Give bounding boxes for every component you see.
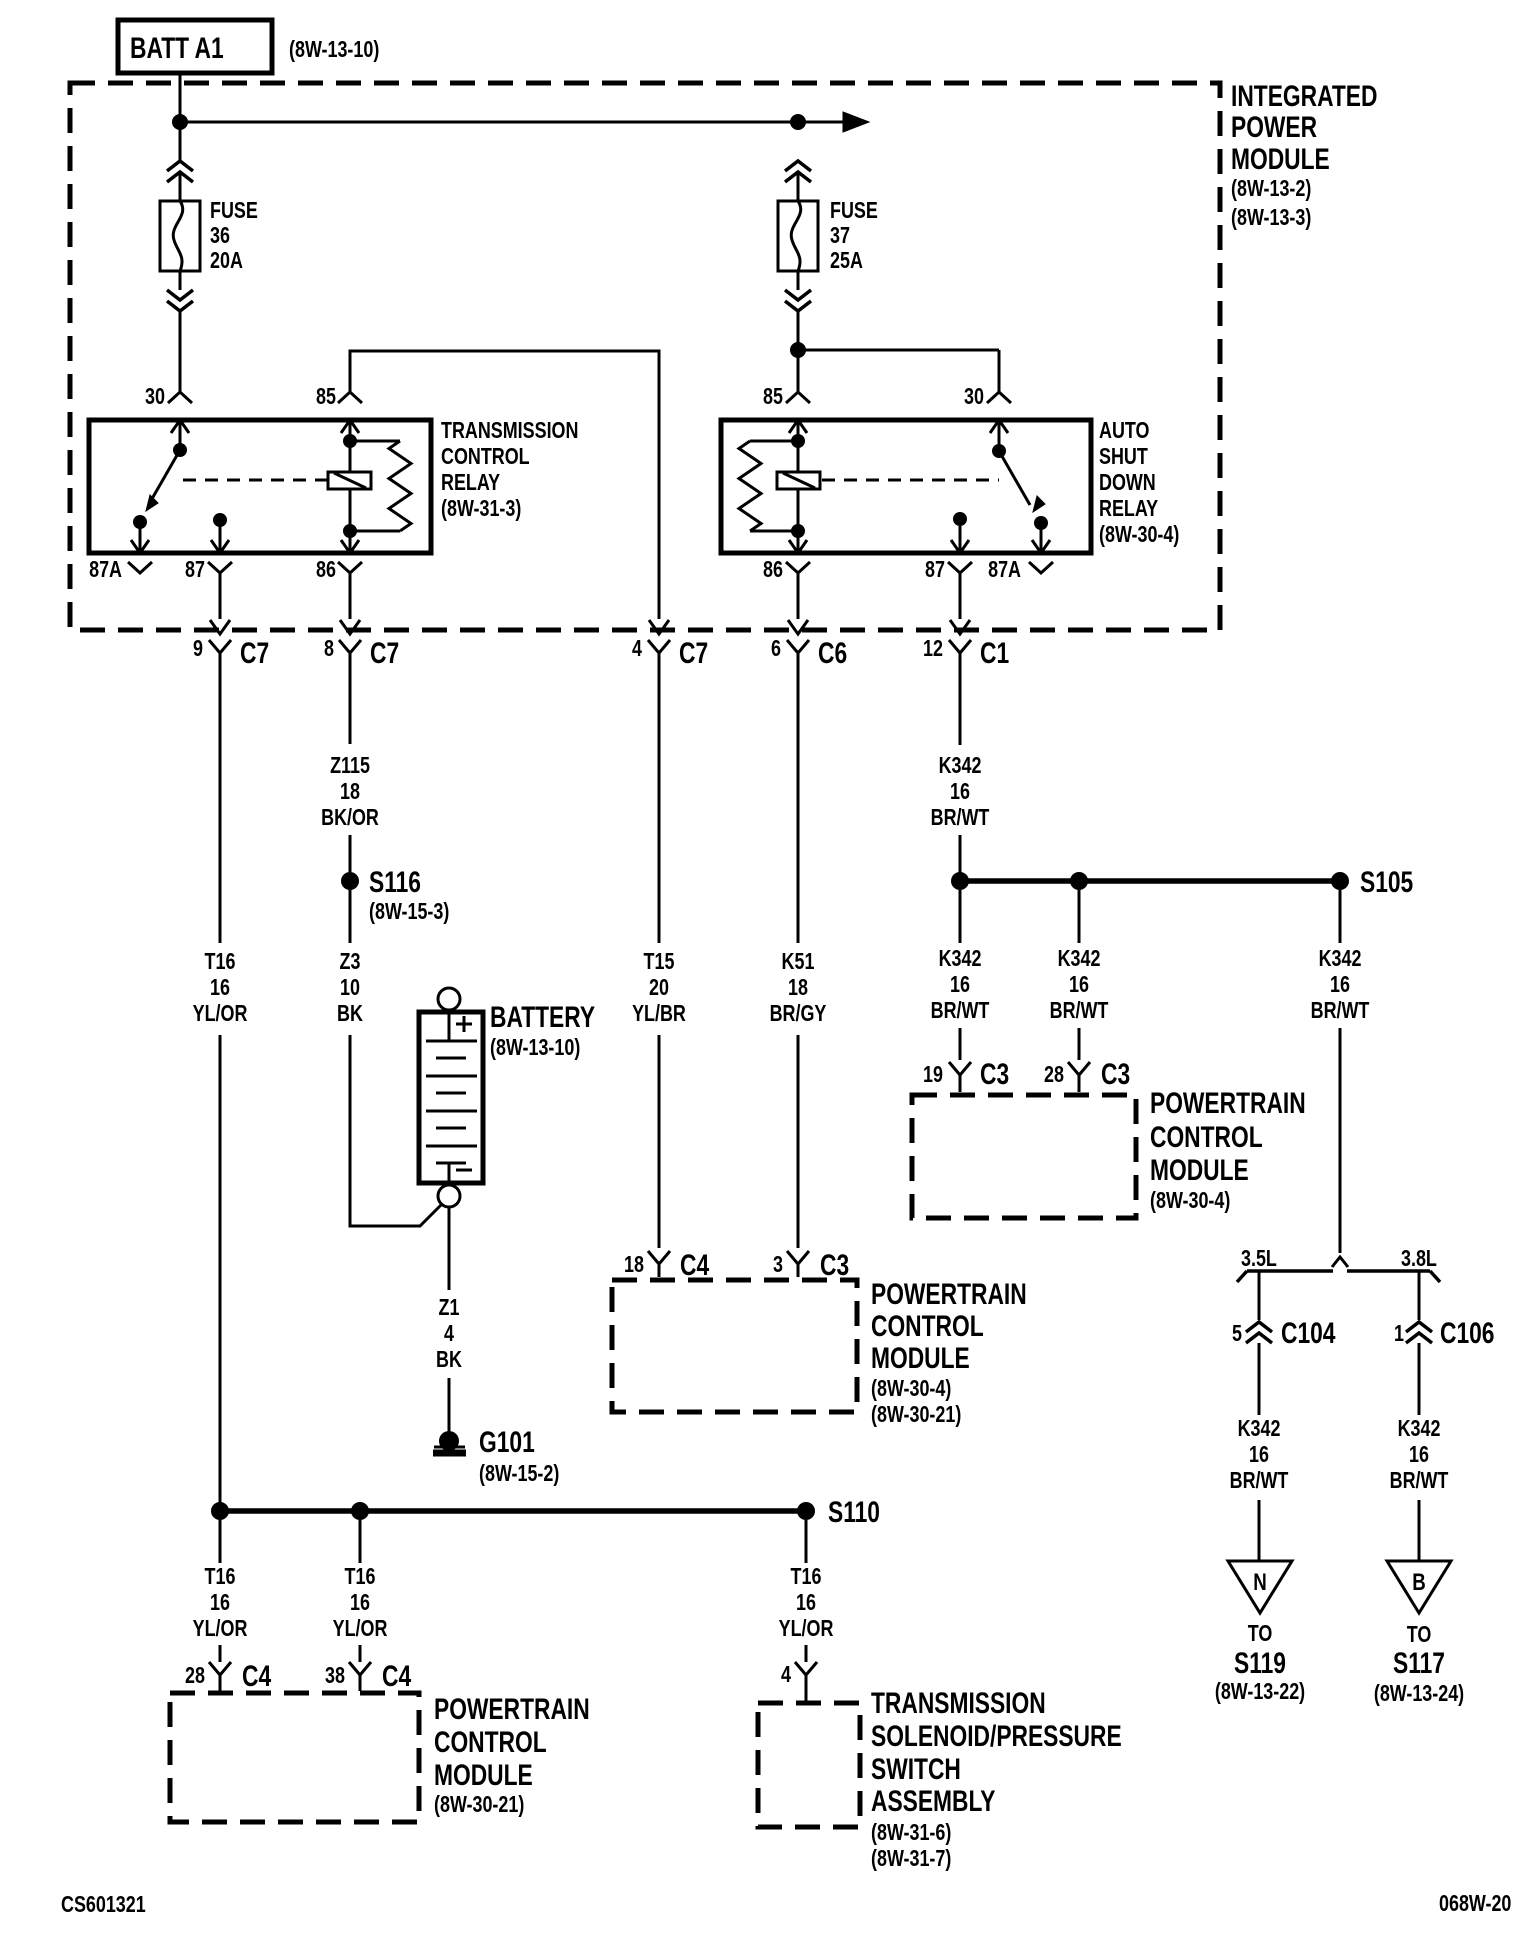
node BATT A1 feed box [118, 20, 272, 73]
wire circuit K342 from C1-12 [959, 664, 962, 745]
node engine variant split brace [1237, 1257, 1440, 1282]
svg-text:(8W-31-3): (8W-31-3) [441, 496, 521, 522]
connector C106 pin 1 [1394, 1316, 1494, 1350]
node pin 87A contact ASD [1034, 516, 1048, 530]
label POWERTRAIN CONTROL MODULE (8W-30-4)(8W-30-21) [871, 1277, 1027, 1428]
svg-text:18: 18 [624, 1252, 644, 1278]
svg-text:K342: K342 [939, 753, 982, 779]
svg-text:86: 86 [763, 557, 783, 583]
node splice to ASD pin 30 [790, 342, 806, 358]
svg-text:(8W-30-4): (8W-30-4) [871, 1376, 951, 1402]
node pin 87 contact ASD [953, 512, 967, 526]
svg-text:RELAY: RELAY [1099, 496, 1158, 522]
svg-text:16: 16 [350, 1590, 370, 1616]
svg-text:RELAY: RELAY [441, 470, 500, 496]
wire label T16 16 YL/OR [333, 1564, 388, 1642]
wire label K342 16 BR/WT [1311, 946, 1370, 1024]
wire circuit Z1 from battery negative [448, 1207, 451, 1290]
wire label K342 16 BR/WT [931, 946, 990, 1024]
svg-text:16: 16 [950, 972, 970, 998]
off-page connector B [1387, 1561, 1451, 1613]
wire Z115 to splice S116 [349, 835, 352, 872]
wire T16 down to S110 [219, 1035, 222, 1511]
svg-text:CONTROL: CONTROL [441, 444, 530, 470]
connector chevrons below fuse 36 [167, 290, 193, 311]
svg-text:B: B [1412, 1569, 1426, 1596]
module POWERTRAIN CONTROL MODULE (right, dashed) [912, 1095, 1136, 1218]
wire pin30 into switch [179, 420, 182, 450]
wire splice to pin 30 of ASD relay [798, 349, 999, 352]
value label FUSE 37 25A [830, 198, 878, 274]
wire K342 to splice bus [959, 835, 962, 881]
svg-text:(8W-15-2): (8W-15-2) [479, 1461, 559, 1487]
svg-text:(8W-13-24): (8W-13-24) [1374, 1681, 1464, 1707]
label INTEGRATED POWER MODULE [1231, 79, 1377, 231]
wire K51 down to PCM C3-3 [797, 1035, 800, 1248]
svg-text:INTEGRATED: INTEGRATED [1231, 79, 1377, 113]
svg-text:CS601321: CS601321 [61, 1892, 146, 1918]
svg-text:POWERTRAIN: POWERTRAIN [1150, 1086, 1306, 1120]
label TO S119 (8W-13-22) [1215, 1621, 1305, 1705]
node coil top ASD [791, 434, 805, 448]
wire into C4-28 [219, 1645, 222, 1662]
node splice feeding fuse 37 [790, 114, 806, 130]
label TO S117 (8W-13-24) [1374, 1622, 1464, 1707]
wire T15 down to PCM C4-18 [658, 1035, 661, 1248]
svg-text:TO: TO [1407, 1622, 1432, 1648]
pin 85 of ASD [763, 384, 810, 433]
node pin 87A contact TCR [133, 515, 147, 529]
connector C6 pin 6 [771, 620, 847, 670]
wire into fuse 36 [179, 172, 182, 201]
fuse F37 [778, 201, 818, 271]
svg-text:MODULE: MODULE [1231, 142, 1330, 176]
label TRANSMISSION SOLENOID/PRESSURE SWITCH ASSEMBLY [871, 1686, 1122, 1872]
svg-text:BK/OR: BK/OR [321, 805, 379, 831]
svg-text:C6: C6 [818, 636, 847, 670]
wire label Z1 4 BK [436, 1295, 462, 1373]
svg-text:POWERTRAIN: POWERTRAIN [434, 1692, 590, 1726]
wire label T16 16 YL/OR [193, 949, 248, 1027]
connector pin 4 of solenoid assembly [781, 1662, 817, 1701]
svg-text:85: 85 [316, 384, 336, 410]
svg-text:3.8L: 3.8L [1401, 1246, 1437, 1272]
svg-text:ASSEMBLY: ASSEMBLY [871, 1784, 996, 1818]
svg-text:C1: C1 [980, 636, 1009, 670]
relay TRANSMISSION CONTROL RELAY box [89, 420, 431, 553]
integrated power module boundary (dashed) [70, 83, 1220, 630]
svg-text:20: 20 [649, 975, 669, 1001]
svg-text:19: 19 [923, 1062, 943, 1088]
wire K342 from S105 down [1339, 890, 1342, 943]
wire label Z3 10 BK [337, 949, 363, 1027]
pin 30 of TCR [145, 384, 192, 433]
svg-text:BR/GY: BR/GY [770, 1001, 827, 1027]
svg-text:87A: 87A [89, 557, 122, 583]
wire to off-page B [1418, 1500, 1421, 1561]
svg-text:YL/OR: YL/OR [193, 1001, 248, 1027]
svg-text:5: 5 [1232, 1321, 1242, 1347]
svg-text:BR/WT: BR/WT [1311, 998, 1370, 1024]
svg-text:20A: 20A [210, 248, 243, 274]
svg-text:K342: K342 [1319, 946, 1362, 972]
dashed actuation link TCR [183, 479, 327, 482]
svg-text:(8W-13-10): (8W-13-10) [289, 37, 379, 63]
wire down from C106 [1418, 1343, 1421, 1415]
svg-text:FUSE: FUSE [210, 198, 258, 224]
svg-text:C7: C7 [679, 636, 708, 670]
svg-text:9: 9 [193, 636, 203, 662]
wire 3.5L branch [1258, 1272, 1261, 1320]
svg-text:87: 87 [185, 557, 205, 583]
svg-text:MODULE: MODULE [1150, 1153, 1249, 1187]
svg-text:TRANSMISSION: TRANSMISSION [871, 1686, 1046, 1720]
wire below fuse 36 [179, 271, 182, 290]
connector C4 pin 18 [624, 1248, 709, 1282]
wire TCR 86 down to border [349, 573, 352, 619]
node switch common TCR [173, 443, 187, 457]
svg-text:6: 6 [771, 636, 781, 662]
svg-text:K342: K342 [1398, 1416, 1441, 1442]
wire T16 branch to C4-28 [219, 1520, 222, 1563]
svg-text:37: 37 [830, 223, 850, 249]
wire splice bus S105 [960, 878, 1340, 884]
svg-text:C7: C7 [240, 636, 269, 670]
svg-text:BR/WT: BR/WT [931, 805, 990, 831]
svg-text:BR/WT: BR/WT [1230, 1468, 1289, 1494]
wire below fuse 37 [797, 271, 800, 290]
svg-text:POWER: POWER [1231, 110, 1317, 144]
wire label K342 16 BR/WT [931, 753, 990, 831]
relay AUTO SHUT DOWN RELAY box [721, 420, 1091, 553]
svg-text:S119: S119 [1234, 1646, 1286, 1680]
svg-text:C106: C106 [1440, 1316, 1494, 1350]
svg-text:BK: BK [436, 1347, 462, 1373]
svg-text:28: 28 [1044, 1062, 1064, 1088]
svg-text:12: 12 [923, 636, 943, 662]
wire TCR 85 loop up and over to C7-4 [350, 351, 659, 619]
svg-text:K342: K342 [1238, 1416, 1281, 1442]
svg-text:(8W-13-22): (8W-13-22) [1215, 1679, 1305, 1705]
svg-text:TRANSMISSION: TRANSMISSION [441, 418, 578, 444]
svg-text:4: 4 [444, 1321, 454, 1347]
svg-text:30: 30 [145, 384, 165, 410]
svg-text:K51: K51 [782, 949, 815, 975]
svg-text:16: 16 [210, 1590, 230, 1616]
relay coil TCR [328, 420, 371, 531]
battery positive terminal [438, 988, 460, 1010]
label POWERTRAIN CONTROL MODULE (8W-30-21) [434, 1692, 590, 1818]
connector C3 pin 3 [773, 1248, 849, 1282]
connector C7 pin 4 [632, 620, 708, 670]
wire B+ bus with arrow [180, 112, 869, 132]
svg-text:(8W-30-4): (8W-30-4) [1099, 522, 1179, 548]
svg-text:16: 16 [1249, 1442, 1269, 1468]
svg-text:T16: T16 [345, 1564, 376, 1590]
splice S105 [1331, 865, 1413, 899]
svg-text:BATT A1: BATT A1 [130, 31, 224, 65]
connector C3 pin 19 [923, 1057, 1009, 1092]
svg-text:(8W-30-21): (8W-30-21) [871, 1402, 961, 1428]
svg-text:C104: C104 [1281, 1316, 1336, 1350]
pin 87A of TCR [89, 522, 152, 583]
svg-text:4: 4 [781, 1662, 791, 1688]
svg-text:(8W-31-6): (8W-31-6) [871, 1820, 951, 1846]
wire label K342 16 BR/WT [1390, 1416, 1449, 1494]
svg-text:(8W-31-7): (8W-31-7) [871, 1846, 951, 1872]
svg-text:AUTO: AUTO [1099, 418, 1149, 444]
wire S116 down [349, 890, 352, 943]
svg-text:C4: C4 [382, 1659, 411, 1693]
resistor across TCR coil [350, 441, 411, 531]
switch arm TCR with arrowhead [146, 450, 180, 511]
svg-text:8: 8 [324, 636, 334, 662]
svg-text:Z1: Z1 [439, 1295, 460, 1321]
svg-text:(8W-30-4): (8W-30-4) [1150, 1188, 1230, 1214]
pin 85 of TCR [316, 384, 362, 433]
svg-text:DOWN: DOWN [1099, 470, 1156, 496]
svg-text:Z3: Z3 [340, 949, 361, 975]
splice S110 [797, 1495, 880, 1529]
wire into C3-28 [1078, 1028, 1081, 1060]
svg-text:BR/WT: BR/WT [1390, 1468, 1449, 1494]
wire 3.8L branch [1418, 1272, 1421, 1320]
svg-text:G101: G101 [479, 1425, 535, 1459]
svg-text:3.5L: 3.5L [1241, 1246, 1277, 1272]
svg-text:SOLENOID/PRESSURE: SOLENOID/PRESSURE [871, 1719, 1122, 1753]
wire T16 branch to solenoid pin 4 [805, 1520, 808, 1563]
value label FUSE 36 20A [210, 198, 258, 274]
pin 86 of ASD [763, 531, 810, 583]
svg-text:C3: C3 [1101, 1057, 1130, 1091]
svg-text:N: N [1253, 1569, 1267, 1596]
wire to PCM C3-28 [1078, 890, 1081, 943]
battery BATTERY [419, 1012, 483, 1183]
svg-text:1: 1 [1394, 1321, 1404, 1347]
label BATTERY (8W-13-10) [490, 1000, 595, 1061]
node splice on B+ bus [172, 114, 188, 130]
wire label K342 16 BR/WT [1050, 946, 1109, 1024]
svg-text:T16: T16 [205, 949, 236, 975]
svg-text:FUSE: FUSE [830, 198, 878, 224]
svg-text:Z115: Z115 [330, 753, 370, 779]
svg-text:TO: TO [1248, 1621, 1273, 1647]
svg-text:28: 28 [185, 1663, 205, 1689]
svg-text:CONTROL: CONTROL [1150, 1120, 1263, 1154]
wire circuit T15 from C7-4 [658, 664, 661, 943]
wire circuit K51 from C6-6 [797, 664, 800, 943]
svg-text:SWITCH: SWITCH [871, 1752, 961, 1786]
svg-text:16: 16 [950, 779, 970, 805]
wire into fuse 37 [797, 172, 800, 201]
wire ASD 87 down to border [959, 573, 962, 619]
node coil top TCR [343, 434, 357, 448]
wire from BATT A1 down into IPM [179, 73, 182, 161]
svg-text:SHUT: SHUT [1099, 444, 1148, 470]
connector C1 pin 12 [923, 620, 1009, 670]
svg-text:BR/WT: BR/WT [931, 998, 990, 1024]
svg-text:YL/OR: YL/OR [193, 1616, 248, 1642]
wire pin30 into switch ASD [998, 420, 1001, 451]
svg-text:K342: K342 [939, 946, 982, 972]
wire into C3-19 [959, 1028, 962, 1060]
battery negative terminal [438, 1185, 460, 1207]
pin 87 of ASD [925, 519, 972, 583]
wire label T16 16 YL/OR [779, 1564, 834, 1642]
svg-text:25A: 25A [830, 248, 863, 274]
connector C4 pin 38 [325, 1659, 411, 1693]
wire fuse 37 to ASD pin 85 [797, 311, 800, 392]
connector C7 pin 9 [193, 620, 269, 670]
pin 86 of TCR [316, 531, 362, 583]
node junction on S110 bus [351, 1502, 369, 1520]
node junction on S105 bus [1070, 872, 1088, 890]
node pin 87 contact TCR [213, 513, 227, 527]
wire label K342 16 BR/WT [1230, 1416, 1289, 1494]
pin 87 of TCR [185, 520, 232, 583]
svg-text:3: 3 [773, 1252, 783, 1278]
svg-text:S117: S117 [1393, 1646, 1445, 1680]
svg-text:16: 16 [210, 975, 230, 1001]
relay coil ASD [777, 420, 820, 531]
connector C4 pin 28 [185, 1659, 271, 1693]
connector chevrons above fuse 37 [785, 161, 811, 182]
svg-text:(8W-15-3): (8W-15-3) [369, 899, 449, 925]
svg-text:86: 86 [316, 557, 336, 583]
wire TCR 87 down to border [219, 573, 222, 619]
svg-text:YL/OR: YL/OR [779, 1616, 834, 1642]
svg-text:C3: C3 [820, 1248, 849, 1282]
connector C7 pin 8 [324, 620, 399, 670]
svg-text:C7: C7 [370, 636, 399, 670]
wire into C4-38 [359, 1645, 362, 1662]
svg-text:YL/BR: YL/BR [632, 1001, 686, 1027]
svg-text:18: 18 [340, 779, 360, 805]
svg-text:87A: 87A [988, 557, 1021, 583]
module POWERTRAIN CONTROL MODULE (middle, dashed) [612, 1280, 857, 1412]
wire T16 branch to C4-38 [359, 1520, 362, 1563]
wire ASD 86 down to border [797, 573, 800, 619]
wire to PCM C3-19 [959, 890, 962, 943]
svg-text:(8W-13-10): (8W-13-10) [490, 1035, 580, 1061]
connector C3 pin 28 [1044, 1057, 1130, 1092]
svg-text:CONTROL: CONTROL [871, 1309, 984, 1343]
svg-text:T16: T16 [791, 1564, 822, 1590]
wire circuit T16 from C7-9 [219, 664, 222, 943]
svg-text:K342: K342 [1058, 946, 1101, 972]
svg-text:MODULE: MODULE [434, 1758, 533, 1792]
svg-text:85: 85 [763, 384, 783, 410]
fuse F36 [160, 201, 200, 271]
svg-text:MODULE: MODULE [871, 1341, 970, 1375]
switch arm ASD with arrowhead [999, 451, 1045, 512]
svg-text:S110: S110 [828, 1495, 880, 1529]
svg-text:16: 16 [796, 1590, 816, 1616]
svg-text:(8W-13-2): (8W-13-2) [1231, 176, 1311, 202]
wire label Z115 18 BK/OR [321, 753, 379, 831]
wire label K51 18 BR/GY [770, 949, 827, 1027]
svg-text:S116: S116 [369, 865, 421, 899]
wire circuit Z115 from C7-8 [349, 664, 352, 744]
wire into solenoid pin 4 [805, 1645, 808, 1662]
svg-text:BR/WT: BR/WT [1050, 998, 1109, 1024]
resistor across ASD coil [739, 441, 798, 531]
connector C104 pin 5 [1232, 1316, 1336, 1350]
dashed actuation link ASD [822, 479, 999, 482]
svg-text:T15: T15 [644, 949, 675, 975]
svg-text:CONTROL: CONTROL [434, 1725, 547, 1759]
label TRANSMISSION CONTROL RELAY (8W-31-3) [441, 418, 578, 522]
svg-text:BK: BK [337, 1001, 363, 1027]
svg-text:POWERTRAIN: POWERTRAIN [871, 1277, 1027, 1311]
svg-text:C4: C4 [680, 1248, 709, 1282]
ground G101 [433, 1431, 466, 1453]
svg-text:YL/OR: YL/OR [333, 1616, 388, 1642]
svg-text:068W-20: 068W-20 [1439, 1891, 1511, 1917]
connector chevrons below fuse 37 [785, 290, 811, 311]
splice S116 [341, 865, 421, 899]
svg-text:BATTERY: BATTERY [490, 1000, 595, 1034]
svg-text:30: 30 [964, 384, 984, 410]
svg-text:C4: C4 [242, 1659, 271, 1693]
node coil bottom ASD [791, 524, 805, 538]
wire down to engine split [1339, 1028, 1342, 1253]
connector chevrons above fuse 36 [167, 161, 193, 182]
wire splice bus S110 [220, 1508, 806, 1514]
svg-text:16: 16 [1409, 1442, 1429, 1468]
label POWERTRAIN CONTROL MODULE (8W-30-4) [1150, 1086, 1306, 1214]
wire label T15 20 YL/BR [632, 949, 686, 1027]
wire down from C104 [1258, 1343, 1261, 1415]
label G101 (8W-15-2) [479, 1425, 559, 1487]
node coil bottom TCR [343, 524, 357, 538]
node junction on S110 bus [211, 1502, 229, 1520]
svg-text:S105: S105 [1360, 865, 1413, 899]
wire Z3 to battery negative [350, 1035, 441, 1226]
node junction on S105 bus [951, 872, 969, 890]
wire fuse 36 to relay pin 30 [179, 311, 182, 392]
svg-text:87: 87 [925, 557, 945, 583]
wire label T16 16 YL/OR [193, 1564, 248, 1642]
label AUTO SHUT DOWN RELAY (8W-30-4) [1099, 418, 1179, 548]
svg-text:16: 16 [1330, 972, 1350, 998]
svg-text:C3: C3 [980, 1057, 1009, 1091]
svg-text:36: 36 [210, 223, 230, 249]
svg-text:18: 18 [788, 975, 808, 1001]
wire to off-page N [1258, 1500, 1261, 1561]
off-page connector N [1228, 1561, 1292, 1613]
node switch common ASD [992, 444, 1006, 458]
svg-text:T16: T16 [205, 1564, 236, 1590]
pin 87A of ASD [988, 523, 1053, 583]
svg-text:16: 16 [1069, 972, 1089, 998]
svg-text:4: 4 [632, 636, 642, 662]
svg-text:(8W-13-3): (8W-13-3) [1231, 205, 1311, 231]
module TRANSMISSION SOLENOID/PRESSURE SWITCH ASSEMBLY box (dashed) [758, 1703, 860, 1827]
svg-text:38: 38 [325, 1663, 345, 1689]
svg-text:10: 10 [340, 975, 360, 1001]
wire Z1 to ground [448, 1378, 451, 1432]
svg-text:(8W-30-21): (8W-30-21) [434, 1792, 524, 1818]
module POWERTRAIN CONTROL MODULE (bottom left, dashed) [170, 1693, 419, 1822]
pin 30 of ASD [964, 384, 1011, 433]
